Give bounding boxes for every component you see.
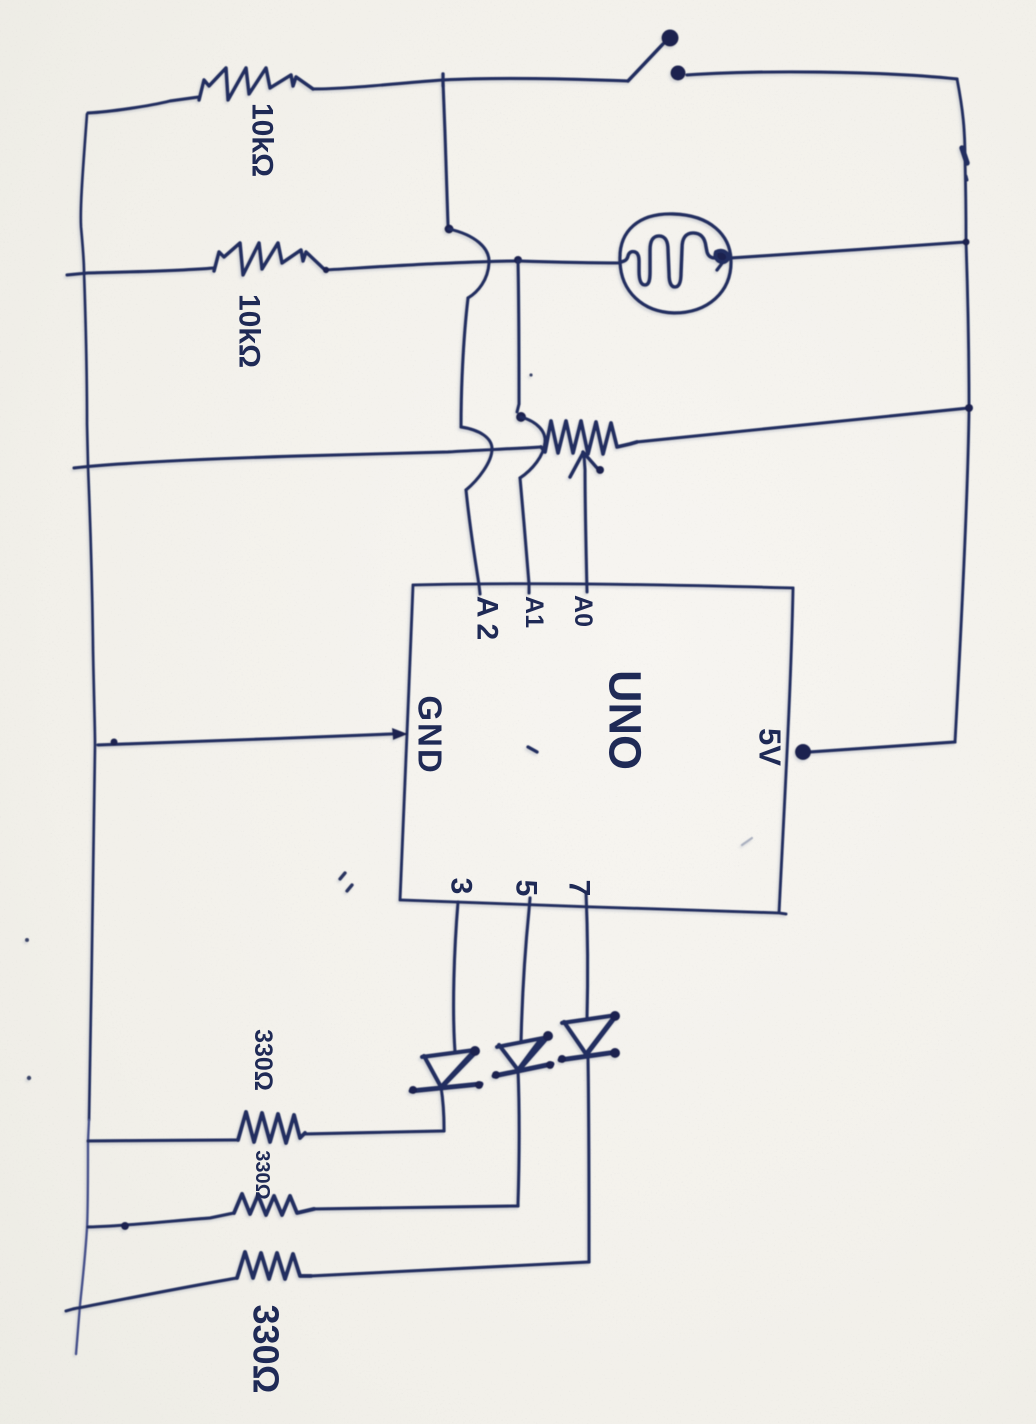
svg-text:3: 3 <box>445 878 478 895</box>
wire LED3 down to corner <box>588 1058 589 1262</box>
row B dot <box>121 1222 129 1230</box>
wire row1 right lead <box>313 78 628 89</box>
wire row2 left lead <box>67 268 214 275</box>
left rail <box>81 114 95 1120</box>
lamp squiggle filament <box>621 233 715 287</box>
UNO box bottom edge <box>400 900 786 914</box>
LED D1 anode bar <box>422 1050 475 1057</box>
svg-text:A0: A0 <box>569 595 597 627</box>
lamp right blob <box>715 251 728 262</box>
LED D3 triangle left side <box>564 1022 586 1054</box>
wire 5V from right rail <box>810 742 955 752</box>
svg-text:330Ω: 330Ω <box>251 1150 273 1199</box>
svg-text:5: 5 <box>510 880 543 897</box>
svg-text:A2: A2 <box>471 596 504 646</box>
LED D1 cathode bar <box>411 1084 481 1091</box>
node blob V2 pre-hop <box>516 412 526 422</box>
LED D1 triangle left side <box>424 1056 441 1087</box>
resistor R3 330 <box>238 1112 305 1143</box>
node: junction tick row1/V1 <box>441 74 444 86</box>
resistor R5 330 <box>237 1252 311 1279</box>
wire row B left lead <box>88 1213 234 1227</box>
wire row3 left segment <box>74 447 541 468</box>
LED D3 cathode bar <box>560 1052 617 1060</box>
node dot pot-rail <box>965 404 973 412</box>
LED D2 top-right blob <box>543 1031 553 1041</box>
wire pot to right rail <box>637 408 969 442</box>
wire V2 hop over row3 <box>520 417 545 478</box>
ink speck left lower <box>27 1076 31 1080</box>
node dot lamp-rail <box>963 239 970 246</box>
wire row A right segment <box>305 1131 444 1134</box>
svg-text:A1: A1 <box>520 596 548 628</box>
wire lamp to right rail <box>731 242 966 258</box>
tick on right rail <box>962 148 967 163</box>
LED D2 triangle left side <box>499 1045 518 1070</box>
wire row2 node to lamp <box>518 261 620 263</box>
pot wiper arrowhead <box>570 453 583 477</box>
ink speck mid <box>529 373 532 376</box>
LED D1 extra diagonal <box>443 1052 476 1086</box>
svg-text:5V: 5V <box>753 728 788 766</box>
svg-text:10kΩ: 10kΩ <box>233 294 266 368</box>
switch contact dot <box>671 66 686 81</box>
wire pin5 to LED2 <box>521 898 530 1042</box>
resistor R1 10k <box>199 68 313 100</box>
LED D3 top-right blob <box>610 1011 620 1021</box>
wire GND from left rail <box>98 734 392 745</box>
UNO box top edge <box>413 584 793 588</box>
wire pin3 to LED1 <box>454 902 458 1052</box>
wire V1: row1 to A2 with hops <box>443 82 448 226</box>
5V pin blob <box>795 744 811 760</box>
right rail <box>955 79 969 742</box>
wire row1 left lead <box>88 97 199 113</box>
wire row C right segment <box>311 1262 589 1276</box>
LED D2 anode bar <box>497 1038 543 1047</box>
wire row2 right lead to node <box>325 261 518 270</box>
ink speck pair near pin3 <box>340 873 345 879</box>
switch S1 lever <box>628 44 663 81</box>
potentiometer RV1 zigzag <box>541 421 637 454</box>
LED D2 extra diagonal <box>520 1037 548 1069</box>
LED D2 cathode bar <box>494 1064 552 1076</box>
svg-text:UNO: UNO <box>600 670 651 770</box>
wire row B right segment <box>314 1206 518 1209</box>
wire V1 hop over row2 <box>449 229 489 298</box>
wire switch to right rail <box>687 72 957 79</box>
wire V2 to pin A1 <box>520 478 529 593</box>
lamp blob tail <box>717 262 723 270</box>
wire row A left lead <box>88 1140 238 1141</box>
wire V1 hop over row3 <box>461 427 492 490</box>
svg-text:330Ω: 330Ω <box>246 1305 287 1394</box>
wire LED2 down to corner <box>518 1070 519 1206</box>
lamp / AC source circle <box>620 214 731 313</box>
UNO box right edge <box>779 588 793 913</box>
wire LED1 to corner <box>441 1087 444 1131</box>
switch pole dot <box>662 30 679 47</box>
LED D1 triangle right side <box>441 1052 473 1087</box>
node dot V1 pre-hop <box>445 225 454 234</box>
resistor R2 10k <box>214 243 325 275</box>
wire V1 mid <box>461 298 468 427</box>
GND dot near rail <box>111 739 118 746</box>
wiper barb dot <box>596 466 604 474</box>
wire A0 to pot wiper <box>584 455 587 592</box>
wire pin7 to LED3 <box>586 892 588 1018</box>
wire row C left lead <box>66 1278 237 1311</box>
LED D1 top-right blob <box>470 1046 480 1056</box>
ink speck left margin <box>25 938 29 942</box>
node V2 start dot <box>514 256 522 264</box>
svg-text:10kΩ: 10kΩ <box>246 103 279 177</box>
svg-text:GND: GND <box>412 695 449 774</box>
svg-text:330Ω: 330Ω <box>249 1029 277 1091</box>
LED D3 triangle right side <box>586 1017 614 1054</box>
LED D3 extra diagonal <box>588 1015 617 1053</box>
LED D3 anode bar <box>562 1015 617 1023</box>
wire V1 to pin A2 <box>466 490 480 594</box>
resistor R4 330 <box>234 1194 314 1215</box>
faint mark in box <box>742 838 752 845</box>
svg-text:7: 7 <box>563 880 596 897</box>
wire V2: row2 to A1 with hop <box>517 261 519 412</box>
GND arrowhead at pin <box>392 728 408 740</box>
UNO box left edge <box>400 585 413 900</box>
pen tick inside UNO <box>528 747 537 752</box>
LED D2 triangle right side <box>518 1039 541 1070</box>
